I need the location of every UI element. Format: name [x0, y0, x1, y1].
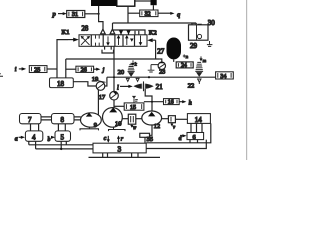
valve 28 cell3 arrow — [107, 36, 109, 45]
svg-text:27: 27 — [157, 47, 165, 55]
box 24 — [176, 62, 193, 68]
svg-text:32: 32 — [145, 12, 151, 18]
svg-text:v: v — [173, 126, 176, 131]
node r — [118, 138, 120, 143]
svg-text:34: 34 — [220, 74, 226, 80]
svg-text:25: 25 — [34, 67, 40, 73]
main bus line — [107, 76, 216, 78]
box 18 — [50, 78, 74, 88]
right margin rule — [246, 0, 248, 160]
tank at 29 — [207, 41, 213, 46]
bus lines bottom left — [29, 145, 93, 149]
wire 32 arrow q — [158, 12, 171, 14]
svg-text:4: 4 — [32, 134, 36, 142]
box 11 coupling — [128, 114, 136, 124]
port B triangle — [110, 29, 115, 34]
legs 4-bus — [29, 141, 36, 149]
component block top-left (filled) — [91, 0, 117, 6]
port ticks right — [135, 31, 139, 35]
pilot mark above 24 — [183, 54, 186, 57]
box 31 — [67, 11, 85, 18]
wire black box down to A port — [99, 6, 103, 35]
port arrow filled 1 — [119, 30, 123, 34]
svg-text:3: 3 — [118, 145, 122, 154]
svg-text:K1: K1 — [62, 29, 70, 36]
wire supply line to valve 30 — [113, 22, 197, 24]
svg-text:w: w — [133, 126, 137, 131]
box 7 — [20, 114, 42, 124]
svg-text:8: 8 — [61, 116, 65, 124]
svg-text:28: 28 — [82, 25, 89, 32]
svg-text:k: k — [135, 62, 138, 67]
box 8 — [52, 114, 75, 124]
pump 12 — [142, 111, 162, 125]
wire tank return line — [66, 59, 160, 78]
svg-text:5: 5 — [61, 134, 65, 142]
svg-text:l: l — [117, 84, 119, 91]
legs 7-4 — [31, 124, 39, 131]
relief valve 22 — [200, 56, 202, 60]
wire 31 to junction — [85, 13, 99, 15]
tank pump 10 — [109, 127, 126, 131]
node j — [94, 68, 99, 70]
tank 23 — [148, 65, 159, 72]
box 14 — [187, 114, 210, 124]
wire white box down to 32 — [127, 6, 129, 23]
shaft 10-11 — [122, 118, 128, 120]
box 34 — [216, 72, 234, 79]
svg-text:19: 19 — [92, 76, 99, 83]
svg-text:16: 16 — [168, 100, 174, 106]
svg-text:m: m — [203, 58, 207, 63]
wire main vertical from valve — [113, 46, 115, 108]
svg-text:15: 15 — [130, 105, 136, 111]
shaft 8-9 — [74, 117, 81, 120]
svg-text:K2: K2 — [149, 30, 157, 37]
svg-text:35: 35 — [147, 136, 154, 143]
svg-text:i: i — [15, 66, 17, 73]
box 5 — [55, 131, 71, 141]
svg-text:26: 26 — [81, 68, 87, 74]
box 15 — [124, 103, 144, 110]
port A triangle — [101, 29, 106, 34]
pilot mark above box 15 — [132, 96, 136, 99]
svg-text:31: 31 — [72, 11, 78, 18]
bottom right lines — [146, 123, 211, 142]
box 16 — [164, 99, 180, 105]
box 6 — [187, 133, 204, 140]
legs 8-5 — [58, 124, 65, 131]
svg-text:7: 7 — [28, 116, 32, 124]
left edge mark — [0, 74, 3, 76]
svg-text:18: 18 — [57, 80, 65, 88]
box 26 — [76, 66, 94, 72]
svg-text:17: 17 — [99, 94, 106, 101]
box 4 — [25, 131, 42, 141]
node junction A-feed — [98, 13, 100, 15]
svg-text:29: 29 — [190, 42, 198, 50]
valve 28 body — [79, 35, 147, 47]
wire p arrow — [58, 13, 65, 15]
svg-text:24: 24 — [181, 63, 187, 69]
box 13 coupling — [168, 116, 175, 123]
wire 21 down — [145, 89, 152, 112]
svg-text:20: 20 — [118, 69, 125, 76]
shaft 12-13 — [162, 118, 169, 120]
svg-text:b: b — [48, 137, 51, 143]
svg-text:p: p — [52, 11, 57, 18]
svg-text:q: q — [177, 12, 180, 19]
svg-text:21: 21 — [156, 84, 163, 91]
svg-text:9: 9 — [94, 122, 97, 129]
shaft 13-14 — [175, 118, 187, 120]
svg-text:h: h — [189, 99, 192, 106]
svg-text:6: 6 — [193, 134, 196, 141]
pump 9 — [81, 113, 102, 127]
svg-text:c: c — [104, 136, 107, 142]
svg-text:22: 22 — [188, 83, 195, 90]
svg-text:12: 12 — [154, 123, 161, 130]
svg-text:n: n — [186, 54, 189, 59]
valve 28 cell6 arrow down — [140, 36, 142, 45]
tank under box 3 — [103, 153, 138, 157]
wire top link — [135, 0, 151, 2]
svg-text:23: 23 — [159, 69, 165, 75]
box 32 — [140, 10, 158, 17]
svg-text:14: 14 — [195, 116, 203, 124]
shaft 7-8 — [41, 117, 52, 120]
svg-text:10: 10 — [115, 121, 122, 128]
valve 28 cell2 bars — [96, 35, 100, 46]
legs 6 down — [190, 140, 198, 143]
wire to box 16 — [144, 101, 164, 103]
component block top small (filled) — [151, 0, 157, 5]
pump 10 — [103, 108, 123, 128]
svg-text:r: r — [121, 136, 124, 142]
svg-text:d: d — [179, 136, 182, 142]
box 3 — [93, 143, 146, 153]
wire stub under black block — [152, 5, 154, 10]
box 35 coupling — [150, 125, 153, 135]
valve 28 cell1 cross arrows — [81, 36, 90, 45]
wire pilot line above valve — [113, 30, 146, 35]
tank pump 9 — [80, 127, 99, 130]
svg-text:a: a — [15, 137, 18, 143]
port arrow filled 2 — [126, 30, 130, 34]
check valve 23 — [158, 62, 165, 69]
wire B feed down — [112, 23, 114, 35]
shaft 11-12 — [136, 118, 142, 120]
wire K1 down to box 18 — [57, 40, 68, 78]
legs 14-6 — [191, 123, 202, 132]
valve 28 cell4 arrow up — [118, 36, 120, 45]
svg-text:30: 30 — [208, 19, 216, 27]
component box top (white) — [117, 0, 135, 6]
valve 28 cell5 arrows — [126, 36, 128, 45]
node h — [179, 101, 184, 103]
tank under valve 28 — [105, 46, 112, 49]
legs 5-bus — [61, 141, 66, 149]
svg-text:j: j — [102, 67, 105, 74]
box 25 — [29, 66, 47, 73]
